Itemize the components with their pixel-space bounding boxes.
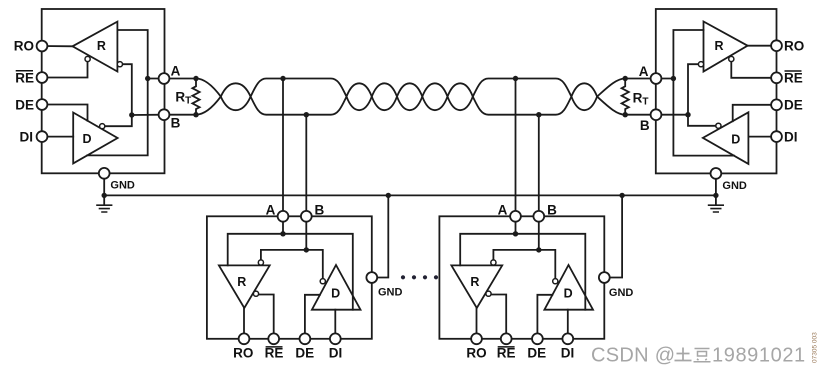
ground symbol right [709,205,724,212]
svg-text:A: A [639,64,649,79]
wire RO U4 [476,308,478,339]
transceiver U4 box (bottom-right) [439,216,604,338]
svg-text:DI: DI [561,346,575,361]
bubble D inverted output U1 [100,124,105,129]
wire node A inner U4 [460,222,585,310]
pin GND U1 [99,168,110,179]
svg-text:R: R [714,39,723,53]
svg-text:DI: DI [329,346,343,361]
transceiver U3 box (bottom-left) [207,216,372,338]
pin DE U1 [37,99,48,110]
svg-text:DE: DE [527,346,546,361]
wire pin B U2 to bus [625,114,656,116]
pin B U2 [651,109,662,120]
svg-text:A: A [498,203,508,218]
resistor RT left [192,79,199,115]
wire node B to pin B U1 [132,114,164,116]
node B inner U3 [304,247,309,252]
wire RE U3 [258,295,274,339]
inverter bubbles [85,56,734,296]
svg-text:19891021: 19891021 [712,345,806,367]
wire RE U4 [491,295,507,339]
op-amp R receiver U4 [451,265,502,308]
wire ground bus [104,194,716,196]
pin DI U1 [37,131,48,142]
bubble R inverting input U1 [117,62,122,67]
svg-text:B: B [547,203,557,218]
svg-text:CSDN @: CSDN @ [591,345,675,367]
wire pin B U1 to bus [164,114,196,116]
overline RE U4 [498,346,515,348]
svg-text:A: A [266,203,276,218]
wire stub bus A to U4 pin A [515,79,517,217]
bubble R inverting input U2 [698,62,703,67]
node ground left [102,193,107,198]
wire stub bus B to U4 pin B [538,115,540,217]
bubble RE enable U2 [729,56,734,61]
node B U2 [685,112,690,117]
svg-text:07305 003: 07305 003 [812,332,817,363]
wire pin A U2 to bus [625,78,656,80]
svg-text:R: R [237,275,246,289]
wire stub bus A to U3 pin A [282,79,284,217]
wire node B to pin B U2 [656,114,688,116]
watermark CSDN [591,345,806,367]
node A inner U4 [513,231,518,236]
node bus tap B U3 [304,112,309,117]
svg-text:RE: RE [497,346,516,361]
node bus tap A U3 [280,76,285,81]
pin GND U4 [599,272,610,283]
node RT left top [193,76,198,81]
wire node A to pin A U2 [656,78,673,80]
svg-text:D: D [731,133,740,147]
svg-text:RT: RT [633,90,649,107]
pin RE U1 [37,72,48,83]
bubble D inverted output U3 [320,279,325,284]
pin GND U2 [711,168,722,179]
wire R input to node A U2 [673,30,703,79]
wire R inverting input to node B U1 [122,64,132,115]
svg-text:GND: GND [722,180,747,192]
ground symbol left [97,205,112,212]
wire RO U2 [748,45,777,47]
pin DE U3 [300,333,311,344]
overline RE U2 [785,70,802,72]
wire D inverted output to node B U1 [105,115,132,126]
wire node A inner U3 [228,222,353,310]
svg-text:DI: DI [784,129,798,144]
wire twisted pair conductor A [196,79,625,111]
op-amp D driver U3 [312,265,361,310]
svg-text:B: B [315,203,325,218]
pin RE U2 [771,72,782,83]
pin RE U3 [268,333,279,344]
pin DE U2 [771,99,782,110]
pin B U4 [533,211,544,222]
wire twisted pair conductor B [196,83,625,114]
wire R inverting input to node B U2 [688,64,699,115]
svg-text:RO: RO [14,39,34,54]
wire stub bus B to U3 pin B [305,115,307,217]
bubble RE enable U3 [253,291,258,296]
transceiver U2 box (top-right) [656,9,777,173]
wire node A to pin A U1 [148,78,164,80]
wire R input to node A U1 [117,30,147,79]
svg-text:DI: DI [20,129,34,144]
wire RO U3 [243,308,245,339]
pin DI U4 [562,333,573,344]
svg-text:DE: DE [15,97,34,112]
node RT left bottom [193,112,198,117]
svg-text:RO: RO [466,346,486,361]
svg-text:R: R [470,275,479,289]
wire DE U2 [733,105,777,121]
svg-text:B: B [171,116,181,131]
node ground right [713,193,718,198]
svg-text:D: D [564,287,573,301]
op-amp D driver U1 [73,113,117,164]
pin A U3 [278,211,289,222]
pin RO U4 [471,333,482,344]
wire RO U1 [42,45,73,47]
pin B U1 [159,109,170,120]
bubble R inverting input U4 [491,260,496,265]
glyph dou [694,349,711,362]
svg-text:RE: RE [784,71,803,86]
svg-text:RO: RO [233,346,253,361]
wire DE U4 [537,295,552,339]
pin GND U3 [366,272,377,283]
node RT right top [623,76,628,81]
node ground U3 riser [386,193,391,198]
bubble R inverting input U3 [258,260,263,265]
transceiver U1 box (top-left) [42,9,165,173]
bubble RE enable U4 [486,291,491,296]
node B U1 [129,112,134,117]
wire RE U1 [42,62,88,78]
wire GND U4 [610,195,623,277]
wire GND U1 [103,173,105,204]
overline RE U1 [16,70,33,72]
op-amp R receiver U1 [73,22,118,72]
pin DI U3 [330,333,341,344]
node ground U4 riser [619,193,624,198]
wire pin A U1 to bus [164,78,196,80]
node dots ellipsis between U3 and U4 [401,275,438,279]
pin RO U3 [239,333,250,344]
op-amp D driver U2 [703,112,749,164]
node B inner U4 [536,247,541,252]
svg-text:RO: RO [784,39,804,54]
pin A U1 [159,73,170,84]
svg-text:DE: DE [784,98,803,113]
wire RE U2 [731,62,776,78]
glyph tu [675,348,692,361]
svg-text:GND: GND [110,180,134,192]
op-amp D driver U4 [544,265,593,310]
node A U2 [671,76,676,81]
wire GND U3 [377,195,388,277]
svg-text:RT: RT [175,89,191,106]
wire DI U4 [567,310,569,339]
wire node B inner U3 [261,222,323,279]
svg-text:RE: RE [15,70,34,85]
svg-text:RE: RE [265,346,284,361]
bubble D inverted output U2 [716,123,721,128]
wire node B inner U4 [493,222,555,279]
pin A U2 [651,73,662,84]
wire D output Y to node A U1 [87,79,148,156]
pin A U4 [510,211,521,222]
svg-text:D: D [331,287,340,301]
bubble D inverted output U4 [553,279,558,284]
node A U1 [145,76,150,81]
pin DE U4 [532,333,543,344]
svg-text:DE: DE [295,346,314,361]
op-amp R receiver U3 [219,265,270,308]
wire DI U2 [748,136,776,138]
pin RO U1 [37,41,48,52]
wire DI U1 [42,136,73,138]
node bus tap B U4 [536,112,541,117]
pin DI U2 [771,131,782,142]
pin RE U4 [501,333,512,344]
svg-text:GND: GND [609,287,634,299]
wire DE U1 [42,105,88,121]
node bus tap A U4 [513,76,518,81]
svg-text:A: A [171,64,181,79]
wire D inverted output to node B U2 [688,115,716,126]
node A inner U3 [280,231,285,236]
wire DE U3 [305,295,320,339]
svg-text:GND: GND [378,287,403,299]
terminal circles [37,40,782,344]
op-amp R receiver U2 [704,22,748,72]
pin B U3 [301,211,312,222]
pin RO U2 [771,40,782,51]
svg-text:D: D [82,132,91,146]
bubble RE enable U1 [85,56,90,61]
overline RE U3 [266,346,283,348]
svg-text:R: R [97,39,106,53]
wire GND U2 [715,173,717,204]
resistor RT right [622,79,629,115]
wire DI U3 [334,310,336,339]
wire D output Y to node A U2 [673,79,734,156]
node RT right bottom [623,112,628,117]
svg-text:B: B [640,118,650,133]
